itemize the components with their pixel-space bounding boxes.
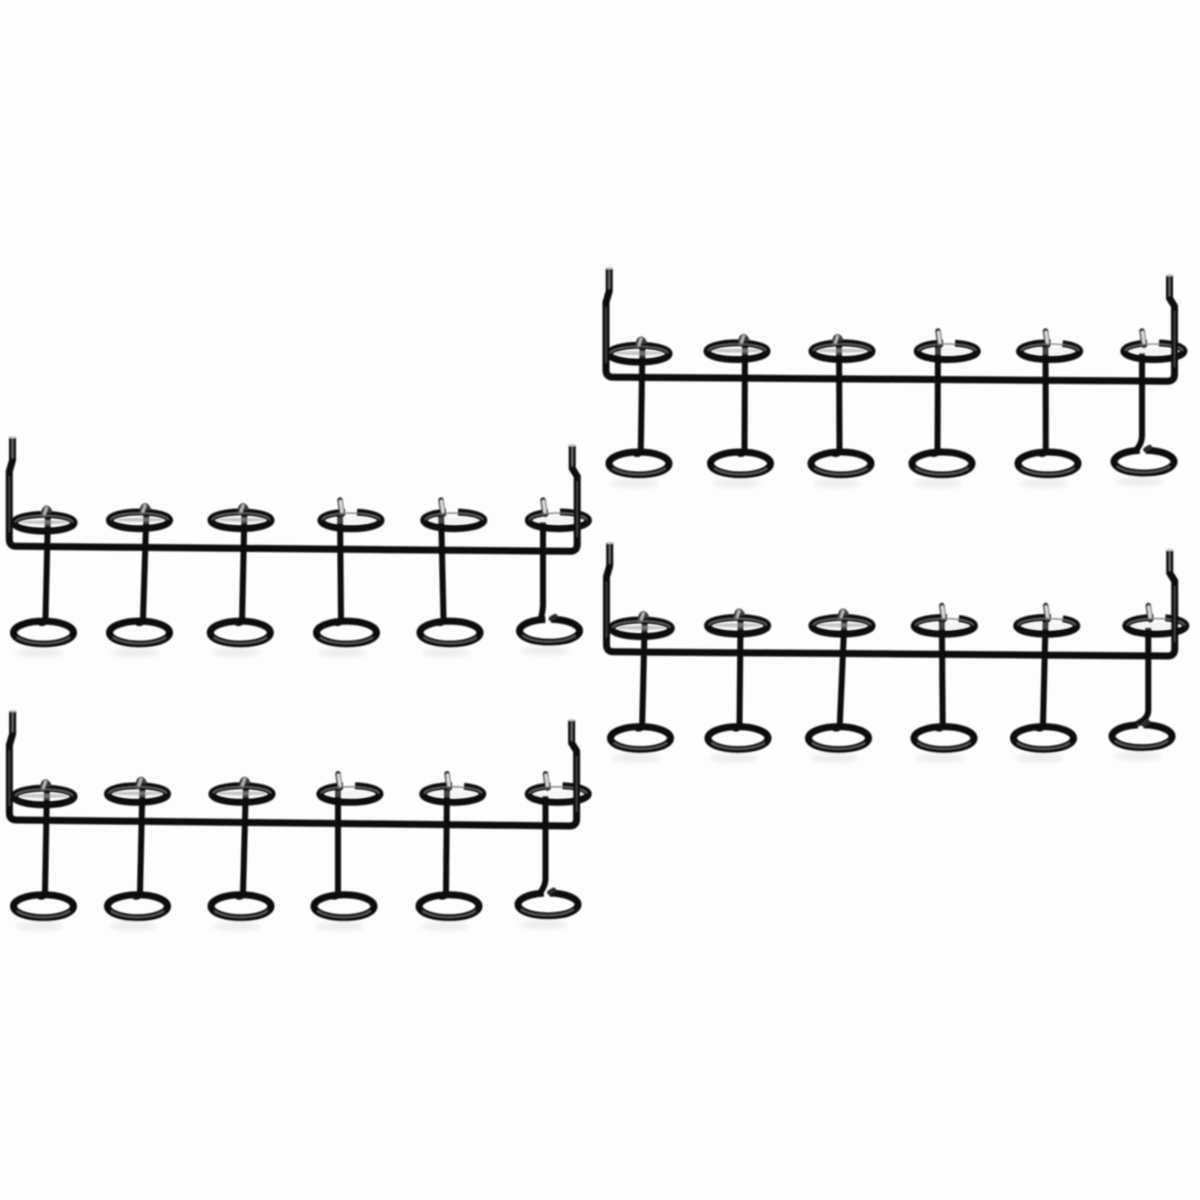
raised wire end holder 5 rack C <box>447 774 449 789</box>
hook highlight right rack C <box>571 722 573 741</box>
hook shaft highlight right rack A <box>1174 311 1176 367</box>
sheen lower ring 4 rack D <box>917 743 970 749</box>
sheen upper ring 6 rack A <box>1125 344 1183 351</box>
lower ring of holder 1 rack A <box>609 452 669 475</box>
sheen upper ring 2 rack B <box>111 513 169 520</box>
sheen lower ring 3 rack C <box>214 911 267 917</box>
hook shaft highlight left rack B <box>8 476 10 532</box>
sheen upper ring 1 rack C <box>15 789 73 796</box>
upper ring of holder 6 rack B <box>532 517 584 524</box>
hook highlight left rack C <box>12 713 14 732</box>
shadow under cup 5 rack C <box>421 922 469 931</box>
hook highlight left rack A <box>608 270 610 289</box>
upper ring of holder 1 rack B <box>18 519 70 526</box>
sheen lower ring 6 rack B <box>522 635 575 641</box>
sheen upper ring 4 rack B <box>322 513 380 520</box>
stem of holder 6 rack A <box>1137 353 1142 451</box>
lower ring of holder 5 rack B <box>420 621 480 644</box>
shadow under cup 4 rack C <box>316 922 364 931</box>
sheen lower ring 3 rack D <box>812 743 865 749</box>
hook tip cap right rack C <box>568 719 574 722</box>
sheen lower ring 6 rack A <box>1117 466 1170 472</box>
lower ring of holder 1 rack C <box>14 895 74 918</box>
upper ring of holder 4 rack B <box>325 517 377 524</box>
lower ring of holder 4 rack D <box>914 727 974 750</box>
upper ring of holder 4 rack A <box>921 348 973 355</box>
shadow under cup 5 rack B <box>422 648 470 657</box>
hook shaft highlight left rack D <box>606 582 608 638</box>
sheen upper ring 5 rack C <box>424 787 482 794</box>
stem of holder 6 rack D <box>1135 628 1148 726</box>
hanging bar with pegboard hooks rack B <box>9 437 577 551</box>
wire rack C <box>9 710 588 931</box>
hook tip cap right rack B <box>569 444 575 447</box>
sheen upper ring 3 rack C <box>213 787 271 794</box>
stem of holder 3 rack C <box>237 784 246 897</box>
raised wire end holder 4 rack A <box>938 331 940 346</box>
sheen lower ring 2 rack D <box>711 743 764 749</box>
raised wire end holder 5 rack A <box>1046 331 1048 346</box>
sheen upper ring 6 rack B <box>529 513 587 520</box>
hook tip cap left rack A <box>606 267 612 270</box>
hook highlight right rack B <box>571 447 573 466</box>
lower ring of holder 2 rack A <box>711 452 771 475</box>
lower ring of holder 4 rack A <box>912 452 972 475</box>
raised wire end holder 6 rack D <box>1148 606 1150 621</box>
upper ring of holder 3 rack D <box>816 622 868 629</box>
hook highlight left rack B <box>12 439 14 458</box>
wire end curl holder 3 rack D <box>840 611 847 621</box>
shadow under cup 1 rack A <box>611 479 659 488</box>
stem of holder 5 rack A <box>1040 341 1046 454</box>
shadow under cup 6 rack A <box>1116 477 1164 486</box>
hook tip cap right rack D <box>1167 549 1173 552</box>
curled wire end lower ring 6 rack C <box>550 890 554 893</box>
hook tip cap left rack B <box>9 436 15 439</box>
lower ring of holder 3 rack B <box>210 621 270 644</box>
curled wire end lower ring 6 rack B <box>551 616 555 619</box>
sheen upper ring 4 rack A <box>918 344 976 351</box>
lower ring of holder 5 rack A <box>1018 452 1078 475</box>
upper ring of holder 2 rack B <box>114 517 166 524</box>
upper ring of holder 1 rack C <box>18 793 70 800</box>
shadow under cup 4 rack A <box>914 479 962 488</box>
sheen upper ring 1 rack B <box>15 516 73 523</box>
upper ring of holder 5 rack D <box>1021 622 1073 629</box>
shadow under cup 5 rack D <box>1016 754 1064 763</box>
lower ring of holder 1 rack D <box>611 727 671 750</box>
sheen upper ring 2 rack D <box>709 619 767 626</box>
upper ring of holder 6 rack C <box>532 791 584 798</box>
upper ring of holder 2 rack C <box>112 791 164 798</box>
sheen upper ring 6 rack C <box>529 787 587 794</box>
lower ring of holder 3 rack C <box>211 895 271 918</box>
lower ring of holder 6 rack A <box>1114 450 1174 473</box>
sheen upper ring 5 rack B <box>425 513 483 520</box>
wire end curl holder 2 rack D <box>736 611 743 621</box>
raised wire end holder 4 rack D <box>942 606 944 621</box>
wire rack D <box>607 542 1186 763</box>
hook highlight right rack A <box>1169 277 1171 296</box>
sheen upper ring 3 rack B <box>212 513 270 520</box>
upper ring of holder 2 rack A <box>711 348 763 355</box>
sheen upper ring 5 rack D <box>1018 619 1076 626</box>
upper ring of holder 1 rack D <box>615 625 667 632</box>
stem of holder 1 rack C <box>39 787 47 897</box>
sheen lower ring 1 rack B <box>17 637 70 643</box>
sheen lower ring 4 rack A <box>915 468 968 474</box>
hook shaft highlight right rack D <box>1174 586 1176 642</box>
stem of holder 1 rack A <box>635 344 643 454</box>
wire end curl holder 1 rack C <box>42 782 49 792</box>
lower ring of holder 6 rack D <box>1112 725 1172 748</box>
shadow under cup 1 rack C <box>16 922 64 931</box>
raised wire end holder 4 rack C <box>338 774 340 789</box>
stem of holder 3 rack A <box>834 341 840 454</box>
lower ring of holder 2 rack C <box>108 895 168 918</box>
shadow under cup 2 rack B <box>112 648 160 657</box>
lower ring of holder 2 rack D <box>708 727 768 750</box>
sheen lower ring 6 rack D <box>1115 741 1168 747</box>
wire end curl holder 1 rack B <box>43 508 50 518</box>
sheen lower ring 1 rack D <box>614 743 667 749</box>
sheen upper ring 6 rack D <box>1127 619 1185 626</box>
raised wire end holder 5 rack B <box>441 500 443 515</box>
lower ring of holder 4 rack C <box>314 895 374 918</box>
lower ring of holder 2 rack B <box>110 621 170 644</box>
wire rack B <box>9 436 588 657</box>
hook shaft highlight right rack C <box>576 756 578 812</box>
sheen upper ring 4 rack D <box>916 619 974 626</box>
sheen upper ring 1 rack D <box>613 621 671 628</box>
sheen upper ring 3 rack A <box>813 344 871 351</box>
upper ring of holder 3 rack A <box>816 348 868 355</box>
upper ring of holder 1 rack A <box>613 350 665 357</box>
hook tip cap left rack D <box>607 542 613 545</box>
lower ring of holder 3 rack A <box>811 452 871 475</box>
hanging bar with pegboard hooks rack C <box>9 711 576 826</box>
wire rack A <box>606 267 1184 488</box>
shadow under cup 2 rack C <box>110 922 158 931</box>
lower ring of holder 4 rack B <box>317 621 377 644</box>
sheen lower ring 4 rack B <box>320 637 373 643</box>
shadow under cup 1 rack B <box>16 648 64 657</box>
hook highlight right rack D <box>1169 552 1171 571</box>
upper ring of holder 6 rack A <box>1128 348 1180 355</box>
wire end curl holder 2 rack A <box>740 336 747 346</box>
upper ring of holder 2 rack D <box>712 622 764 629</box>
sheen upper ring 2 rack C <box>109 787 167 794</box>
sheen upper ring 5 rack A <box>1021 344 1079 351</box>
sheen upper ring 4 rack C <box>321 787 379 794</box>
lower ring of holder 6 rack C <box>518 893 578 916</box>
hook highlight left rack D <box>609 545 611 564</box>
wire end curl holder 2 rack C <box>138 779 145 789</box>
stem of holder 2 rack B <box>137 510 147 623</box>
stem of holder 6 rack C <box>540 796 545 894</box>
sheen lower ring 5 rack C <box>422 911 475 917</box>
stem of holder 6 rack B <box>541 522 544 620</box>
stem of holder 4 rack A <box>932 341 939 454</box>
wire end curl holder 1 rack D <box>640 613 647 623</box>
upper ring of holder 3 rack C <box>216 791 268 798</box>
raised wire end holder 6 rack C <box>546 774 548 789</box>
sheen lower ring 5 rack A <box>1021 468 1074 474</box>
shadow under cup 1 rack D <box>613 754 661 763</box>
shadow under cup 3 rack D <box>811 754 859 763</box>
shadow under cup 4 rack B <box>319 648 367 657</box>
upper ring of holder 5 rack C <box>427 791 479 798</box>
wire end curl holder 1 rack A <box>638 339 645 349</box>
shadow under cup 6 rack B <box>521 646 569 655</box>
stem of holder 2 rack D <box>734 616 741 729</box>
hook tip cap right rack A <box>1166 274 1172 277</box>
upper ring of holder 4 rack C <box>324 791 376 798</box>
hook shaft highlight left rack C <box>8 750 10 806</box>
raised wire end holder 5 rack D <box>1046 606 1048 621</box>
wire end curl holder 3 rack B <box>240 505 247 515</box>
shadow under cup 5 rack A <box>1020 479 1068 488</box>
shadow under cup 2 rack D <box>710 754 758 763</box>
upper ring of holder 4 rack D <box>918 622 970 629</box>
shadow under cup 6 rack D <box>1114 752 1162 761</box>
lower ring of holder 3 rack D <box>809 727 869 750</box>
shadow under cup 3 rack B <box>212 648 260 657</box>
raised wire end holder 6 rack B <box>543 500 545 515</box>
lower ring of holder 1 rack B <box>14 621 74 644</box>
lower ring of holder 5 rack C <box>419 895 479 918</box>
upper ring of holder 3 rack B <box>215 517 267 524</box>
sheen lower ring 3 rack A <box>814 468 867 474</box>
stem of holder 1 rack B <box>40 513 49 623</box>
stem of holder 5 rack D <box>1037 616 1046 729</box>
sheen lower ring 1 rack A <box>612 468 665 474</box>
upper ring of holder 5 rack A <box>1024 348 1076 355</box>
wire end curl holder 2 rack B <box>142 505 149 515</box>
hook shaft highlight right rack B <box>576 481 578 537</box>
shadow under cup 2 rack A <box>713 479 761 488</box>
curled wire end lower ring 6 rack A <box>1146 447 1150 450</box>
sheen lower ring 2 rack A <box>714 468 767 474</box>
hanging bar with pegboard hooks rack A <box>606 268 1175 381</box>
stem of holder 4 rack B <box>335 510 341 623</box>
wire end curl holder 3 rack C <box>241 779 248 789</box>
shadow under cup 3 rack A <box>813 479 861 488</box>
shadow under cup 4 rack D <box>916 754 964 763</box>
raised wire end holder 4 rack B <box>340 500 342 515</box>
stem of holder 3 rack D <box>834 616 845 729</box>
upper ring of holder 5 rack B <box>428 517 480 524</box>
sheen lower ring 2 rack B <box>113 637 166 643</box>
stem of holder 4 rack D <box>937 616 943 729</box>
lower ring of holder 5 rack D <box>1014 727 1074 750</box>
sheen upper ring 3 rack D <box>813 619 871 626</box>
shadow under cup 6 rack C <box>520 920 568 929</box>
sheen lower ring 5 rack B <box>423 637 476 643</box>
sheen lower ring 4 rack C <box>317 911 370 917</box>
stem of holder 5 rack C <box>440 784 447 897</box>
raised wire end holder 6 rack A <box>1142 331 1144 346</box>
sheen upper ring 2 rack A <box>708 344 766 351</box>
stem of holder 5 rack B <box>438 510 444 623</box>
stem of holder 1 rack D <box>636 618 645 728</box>
sheen lower ring 6 rack C <box>521 909 574 915</box>
hook tip cap left rack C <box>9 710 15 713</box>
stem of holder 2 rack A <box>739 341 746 454</box>
wire end curl holder 3 rack A <box>834 336 841 346</box>
hook shaft highlight left rack A <box>605 307 607 363</box>
stem of holder 4 rack C <box>332 784 338 897</box>
sheen lower ring 1 rack C <box>17 911 70 917</box>
stem of holder 3 rack B <box>236 510 244 623</box>
hanging bar with pegboard hooks rack D <box>607 543 1175 656</box>
curled wire end lower ring 6 rack D <box>1144 722 1148 725</box>
sheen lower ring 5 rack D <box>1017 743 1070 749</box>
sheen lower ring 3 rack B <box>214 637 267 643</box>
lower ring of holder 6 rack B <box>520 619 580 642</box>
upper ring of holder 6 rack D <box>1130 622 1182 629</box>
stem of holder 2 rack C <box>134 784 143 897</box>
shadow under cup 3 rack C <box>213 922 261 931</box>
sheen lower ring 2 rack C <box>111 911 164 917</box>
sheen upper ring 1 rack A <box>610 346 668 353</box>
